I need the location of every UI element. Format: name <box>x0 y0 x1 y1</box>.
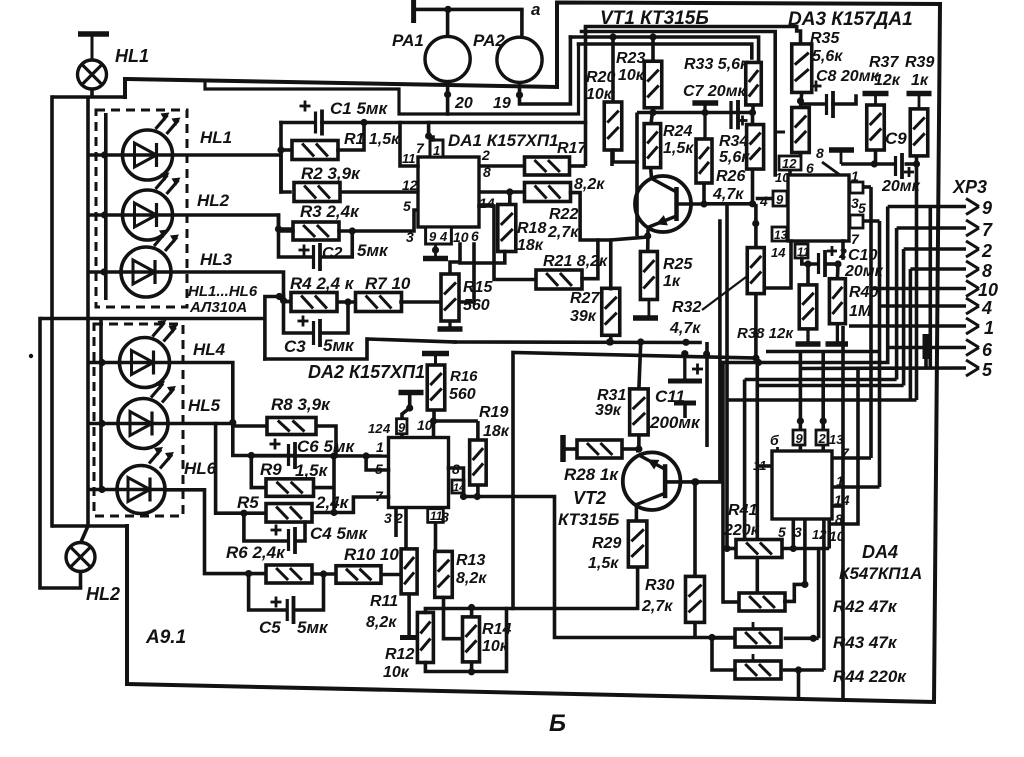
svg-text:PA1: PA1 <box>392 31 424 50</box>
lamp HL2 <box>66 543 120 605</box>
wire pin1 stub <box>863 185 871 189</box>
wire pin35 stub <box>863 219 880 223</box>
wire loop to DA2 pin8 <box>513 350 756 608</box>
svg-text:4: 4 <box>439 229 448 244</box>
resistor R6 <box>226 543 312 583</box>
svg-text:10к: 10к <box>618 67 645 84</box>
wire pin7 DA2 <box>334 497 389 513</box>
svg-text:R22: R22 <box>549 206 578 223</box>
wire vert 818 <box>817 549 821 639</box>
wire pin10 to R15 <box>450 244 460 274</box>
junction meter feed <box>444 6 451 13</box>
svg-text:220к: 220к <box>723 522 760 539</box>
svg-text:R30: R30 <box>645 577 674 594</box>
contact bar DA2 pin9 <box>399 393 424 419</box>
wire R17b right <box>571 193 611 240</box>
resistor R44 <box>735 654 907 686</box>
svg-text:9: 9 <box>776 192 784 207</box>
label HL1...HL6 <box>188 283 258 300</box>
svg-text:С7 20мк: С7 20мк <box>683 83 747 100</box>
pin 8 label DA3 <box>816 145 824 161</box>
wire C3 loop <box>284 302 349 334</box>
pin 11 label DA4 <box>753 458 767 473</box>
meter PA1 <box>392 9 470 81</box>
svg-text:12: 12 <box>782 156 797 171</box>
pin box 14 DA2 <box>452 480 465 494</box>
wire R31 top <box>639 342 641 389</box>
ground R38 <box>796 329 821 344</box>
wire R27 bottom <box>607 335 614 346</box>
wire HL6 cathode <box>165 490 266 577</box>
wire R10 right <box>381 573 401 577</box>
svg-text:R9: R9 <box>260 460 282 479</box>
svg-text:11: 11 <box>402 151 416 166</box>
svg-text:2: 2 <box>481 147 490 163</box>
wire lamp HL2 stem <box>79 571 83 588</box>
IC DA3 <box>788 175 849 241</box>
wire R41 left <box>723 545 736 552</box>
wire pin9 stem2 <box>402 404 413 437</box>
svg-text:1,5к: 1,5к <box>295 461 329 480</box>
svg-text:DA4: DA4 <box>862 542 898 562</box>
wire pin9 stub DA3 <box>752 199 773 228</box>
wire xp7 vert <box>895 228 899 380</box>
svg-text:8: 8 <box>982 261 992 281</box>
resistor R2 <box>294 164 361 202</box>
contact bar R16 <box>422 354 449 366</box>
pin 1 label DA4 <box>836 473 844 489</box>
wire R21 right <box>582 240 598 279</box>
wire PA1 pin 20 <box>444 82 451 114</box>
svg-text:9: 9 <box>398 420 406 435</box>
svg-text:3: 3 <box>384 510 392 526</box>
wire VT1 base <box>678 202 704 206</box>
svg-text:12к: 12к <box>874 72 901 89</box>
capacitor C2 <box>299 241 390 271</box>
wire vert da4 9 <box>797 352 804 431</box>
contact bar pin8 <box>829 150 854 164</box>
wire da4 p2 <box>832 485 880 489</box>
svg-text:20мк: 20мк <box>844 263 884 280</box>
svg-text:HL1: HL1 <box>200 128 232 147</box>
wire pin11 to R13 <box>434 522 438 551</box>
wire R23-R24 <box>651 108 653 124</box>
wire pin1 DA2 <box>251 452 388 459</box>
wire C10 right <box>826 260 842 267</box>
junction rail R23 <box>649 33 656 40</box>
wire R42 left <box>723 600 739 604</box>
svg-text:9: 9 <box>796 431 804 446</box>
pin 5 label DA2 <box>375 461 383 477</box>
pin box 9 4 DA1 <box>426 227 452 244</box>
svg-text:5: 5 <box>982 360 993 380</box>
wire R2 right to pin12 <box>340 190 418 194</box>
resistor R36 <box>792 108 810 153</box>
wire R18 bottom <box>460 252 505 264</box>
resistor R39 <box>905 54 934 156</box>
svg-text:R26: R26 <box>716 168 745 185</box>
capacitor C9 <box>881 129 921 195</box>
wire R35 bottom <box>797 93 804 108</box>
wire xp10 vert <box>869 187 873 458</box>
svg-text:8,2к: 8,2к <box>366 614 397 631</box>
pin box 9 DA2 <box>397 419 408 435</box>
LED HL1 <box>88 113 232 181</box>
svg-text:2,7к: 2,7к <box>547 224 579 241</box>
label VT1 <box>600 8 709 29</box>
svg-text:DA3 К157ДА1: DA3 К157ДА1 <box>788 9 913 30</box>
wire R28 right <box>622 447 638 451</box>
resistor R14 <box>463 617 512 662</box>
svg-text:R10 10: R10 10 <box>344 545 399 564</box>
svg-text:R19: R19 <box>479 404 508 421</box>
svg-text:С6 5мк: С6 5мк <box>297 437 355 456</box>
svg-text:8: 8 <box>816 145 824 161</box>
svg-text:а: а <box>531 0 540 19</box>
pointer R32 <box>702 277 746 310</box>
svg-text:PA2: PA2 <box>473 31 505 50</box>
pin 7 label <box>416 140 425 156</box>
capacitor C11 <box>649 354 703 432</box>
svg-text:VT1 КТ315Б: VT1 КТ315Б <box>600 8 709 29</box>
wire pin8 diag <box>822 162 840 175</box>
resistor R26 <box>696 139 745 203</box>
pin label 20 <box>454 95 473 112</box>
svg-text:1: 1 <box>376 439 384 455</box>
IC DA1 <box>418 131 559 227</box>
pin label 19 <box>493 95 511 112</box>
svg-text:R4 2,4 к: R4 2,4 к <box>290 274 355 293</box>
wire R32 top <box>754 204 758 248</box>
resistor R12 <box>383 613 433 682</box>
wire pin2 to R11 <box>404 508 408 550</box>
svg-text:9: 9 <box>982 198 992 218</box>
svg-text:R35: R35 <box>810 30 840 47</box>
wire R11 bottom <box>400 594 418 638</box>
wire R39 bottom <box>913 156 920 400</box>
wire pin5 DA2 <box>366 456 388 470</box>
resistor R15 <box>441 274 493 321</box>
resistor R31 <box>595 387 648 435</box>
svg-text:7: 7 <box>851 231 860 247</box>
svg-text:8: 8 <box>483 164 491 180</box>
wire C9 bus <box>841 162 917 166</box>
wire R20 top <box>611 37 615 102</box>
wire node R23 C7 R33 <box>637 109 756 116</box>
wire base rail <box>704 200 756 207</box>
wire HL4 cathode <box>170 363 237 427</box>
wire da4 p4 <box>832 369 858 524</box>
svg-text:3: 3 <box>794 524 802 540</box>
wire pin8 to R17b <box>479 190 525 194</box>
LED HL5 <box>88 381 221 449</box>
wire vert 719 <box>695 221 720 482</box>
pin b label DA4 <box>770 432 779 451</box>
svg-text:R2 3,9к: R2 3,9к <box>301 164 361 183</box>
svg-text:R17: R17 <box>557 140 587 157</box>
capacitor C5 <box>259 596 329 637</box>
wire vert 757 <box>755 358 759 386</box>
wire R44 right <box>783 666 824 673</box>
svg-text:39к: 39к <box>570 308 597 325</box>
svg-text:5: 5 <box>778 524 786 540</box>
wire long to R30 <box>464 497 736 642</box>
svg-text:19: 19 <box>493 95 511 112</box>
wire top-left horizontal <box>52 95 125 99</box>
wire R34 top <box>751 113 755 125</box>
resistor R1 <box>292 131 400 160</box>
svg-text:9: 9 <box>429 229 437 244</box>
wire R6-R10 <box>312 570 336 577</box>
svg-text:18к: 18к <box>517 237 544 254</box>
resistor R23 <box>616 50 662 108</box>
wire R7 right to pin6 <box>401 244 474 302</box>
svg-text:АЛ310А: АЛ310А <box>189 299 247 316</box>
capacitor C4 <box>271 524 369 554</box>
svg-text:R27: R27 <box>570 290 600 307</box>
wire R38 top <box>806 264 810 285</box>
wire da4 p1 <box>832 456 871 460</box>
wire da4 pin3 down <box>803 519 807 584</box>
svg-text:R12: R12 <box>385 646 414 663</box>
lamp HL1 <box>78 46 150 89</box>
LED HL4 <box>88 320 226 388</box>
wire VT2 collector down <box>635 505 639 522</box>
label 2,7k <box>547 224 579 241</box>
pin 3 label DA4 <box>794 524 802 540</box>
block border A9.1 <box>125 3 940 703</box>
pin 12 label <box>402 177 418 193</box>
wire xp2 vert <box>902 249 906 386</box>
pin 10 label DA3 <box>775 170 790 185</box>
speck <box>29 354 33 358</box>
svg-text:HL3: HL3 <box>200 250 233 269</box>
svg-text:R28 1к: R28 1к <box>564 465 619 484</box>
wire R13 bottom <box>444 598 463 639</box>
XP3 pin 2 <box>904 241 992 261</box>
wire vert VT1 left <box>635 113 639 237</box>
pin box 11 DA2 <box>428 509 444 523</box>
wire C11 bottom <box>683 403 687 418</box>
pin 5 label <box>403 198 411 214</box>
pin 14 label DA4 <box>834 492 850 508</box>
resistor R41 <box>723 502 782 558</box>
label DA2 <box>308 362 425 382</box>
svg-text:С5: С5 <box>259 618 281 637</box>
svg-text:Б: Б <box>549 710 566 737</box>
wire vert 723 <box>721 363 725 603</box>
resistor R40 <box>829 279 878 324</box>
svg-text:DA1 К157ХП1: DA1 К157ХП1 <box>448 131 559 150</box>
resistor R19 <box>470 404 510 485</box>
svg-text:1,5к: 1,5к <box>663 140 694 157</box>
svg-text:R38 12к: R38 12к <box>737 325 794 342</box>
wire vert 757b <box>755 386 759 594</box>
pin 10 label DA4 <box>829 528 845 544</box>
wire da4 pin12 down <box>822 519 826 670</box>
wire left outer vertical <box>50 97 54 526</box>
wire R23 top <box>651 37 655 61</box>
wire da4 pin5 stub <box>790 519 797 552</box>
svg-text:ХР3: ХР3 <box>952 177 987 197</box>
svg-text:6: 6 <box>471 228 479 244</box>
wire R44 left <box>712 638 735 671</box>
wire top feed to meters <box>414 0 522 23</box>
wire pin11 stub DA4 <box>757 464 772 468</box>
wire C1 right <box>322 119 586 126</box>
svg-text:R1 1,5к: R1 1,5к <box>344 131 400 148</box>
pin 4 label DA3 <box>759 193 768 209</box>
wire R16 bottom <box>430 410 437 425</box>
svg-text:20мк: 20мк <box>881 178 921 195</box>
resistor R25 <box>640 252 693 300</box>
transistor VT2 <box>558 452 680 529</box>
LED HL6 <box>88 447 217 514</box>
svg-text:2,4к: 2,4к <box>315 493 350 512</box>
pin 7 label DA4 <box>841 445 850 461</box>
wire drop to pin1 <box>233 424 294 460</box>
resistor R5 <box>237 493 350 522</box>
wire supply rail D <box>579 44 752 58</box>
label AL310A <box>189 299 247 316</box>
wire R3 left <box>275 215 293 233</box>
svg-text:R39: R39 <box>905 54 934 71</box>
wire VT2 base right <box>667 478 698 485</box>
wire R41 right <box>782 547 829 551</box>
wire HL1 cathode <box>173 155 291 192</box>
svg-text:20: 20 <box>454 95 473 112</box>
svg-text:14: 14 <box>771 245 786 260</box>
wire VT1 emitter to R27 <box>611 237 648 289</box>
svg-text:R24: R24 <box>663 123 692 140</box>
wire bus mid <box>455 338 700 346</box>
wire R1 right <box>338 123 364 151</box>
wire HL5 drop to R5 <box>216 424 266 517</box>
svg-text:R29: R29 <box>592 535 621 552</box>
wire LED anode bus1 <box>104 113 108 300</box>
svg-text:C9: C9 <box>885 129 907 148</box>
resistor R43 <box>735 622 898 652</box>
wire vert 744 <box>743 380 747 540</box>
XP3 pin 9 <box>888 198 992 218</box>
svg-text:КТ315Б: КТ315Б <box>558 510 619 529</box>
svg-text:HL2: HL2 <box>86 584 120 604</box>
wire riser to R4 node <box>265 293 284 359</box>
pin 7 label DA2 <box>375 488 384 504</box>
XP3 pin 4 <box>880 298 993 318</box>
resistor R9 <box>260 460 329 496</box>
XP3 pin 6 <box>889 340 993 361</box>
resistor R13 <box>435 551 487 597</box>
svg-text:R33 5,6к: R33 5,6к <box>684 56 749 73</box>
resistor R4 <box>290 274 355 312</box>
svg-text:R20: R20 <box>586 69 615 86</box>
wire PA2 pin 19 <box>516 37 571 104</box>
pin 3 5 labels <box>851 195 866 216</box>
svg-text:10к: 10к <box>586 86 613 103</box>
svg-text:1: 1 <box>851 168 859 184</box>
wire R34 bottom <box>751 169 755 204</box>
svg-text:R3 2,4к: R3 2,4к <box>300 202 360 221</box>
wire vert 707 <box>705 342 709 447</box>
pin 12 label DA4 <box>812 527 827 542</box>
wire da4 feed rail <box>766 350 880 354</box>
svg-text:С4 5мк: С4 5мк <box>310 524 368 543</box>
pin 6 label DA3 <box>806 160 814 176</box>
wire C8 left <box>801 102 827 106</box>
wire R3 right to pin5 <box>339 210 418 235</box>
wire bus671 <box>425 609 506 676</box>
ground DA1 pin9 <box>423 244 448 259</box>
wire R40 top <box>836 264 840 279</box>
IC DA4 <box>772 451 922 583</box>
svg-text:12: 12 <box>368 421 383 436</box>
svg-text:R16: R16 <box>450 368 478 385</box>
svg-text:R8 3,9к: R8 3,9к <box>271 395 331 414</box>
label B bottom <box>549 710 566 737</box>
pin 3 label <box>406 229 414 245</box>
wire R20 bottom jog <box>613 150 637 162</box>
svg-text:1к: 1к <box>911 72 929 89</box>
contact bar pin6 <box>923 334 929 359</box>
pin 6 label <box>471 228 479 244</box>
pin box 9 DA4 <box>793 430 805 446</box>
pin 10 label DA2 <box>417 417 433 433</box>
wire xp4 vert <box>878 221 882 487</box>
XP3 pin 10 <box>871 280 998 300</box>
XP3 pin 5 <box>799 360 993 380</box>
svg-text:1: 1 <box>984 318 994 338</box>
resistor R8 <box>267 395 331 435</box>
pin box 13 DA3 <box>772 227 788 242</box>
resistor R10 <box>336 545 399 583</box>
resistor R30 <box>641 576 705 622</box>
svg-text:R41: R41 <box>728 502 757 519</box>
wire bus608 <box>425 568 637 613</box>
svg-text:560: 560 <box>449 386 476 403</box>
wire C8 right <box>833 96 856 104</box>
wire R43 right <box>784 635 819 642</box>
svg-text:R23: R23 <box>616 50 645 67</box>
wire VT2 emitter top <box>636 449 640 453</box>
resistor R7 <box>356 274 411 312</box>
svg-text:3: 3 <box>406 229 414 245</box>
chassis bar top <box>78 34 109 60</box>
wire R9 left feed <box>251 456 266 488</box>
resistor R21 <box>536 253 608 289</box>
label DA3 <box>788 9 913 30</box>
pin 2 label DA3 <box>838 245 847 261</box>
wire R8 left feed <box>233 424 267 428</box>
capacitor C10 <box>819 246 884 280</box>
svg-text:R40: R40 <box>849 284 878 301</box>
svg-text:С3: С3 <box>284 337 306 356</box>
ground R40 <box>826 324 849 344</box>
wire VT1 emitter <box>644 231 651 251</box>
label A9.1 <box>145 627 186 648</box>
wire R28 left <box>563 447 577 451</box>
svg-text:R25: R25 <box>663 256 693 273</box>
wire C1 rail riser <box>584 27 588 167</box>
svg-text:HL1: HL1 <box>115 46 149 66</box>
resistor R3 <box>293 202 360 240</box>
svg-text:HL6: HL6 <box>184 459 217 478</box>
wire pin2 to R17 <box>479 164 525 168</box>
wire pin9 stem DA4 <box>799 445 803 451</box>
wire C1 to R1R2 <box>277 123 284 193</box>
wire C1 to pin1 <box>425 123 433 141</box>
wire mesh y379 <box>745 378 897 382</box>
